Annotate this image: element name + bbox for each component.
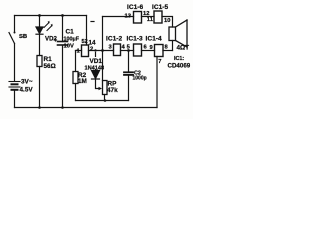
svg-text:IC1-5: IC1-5 [152,4,168,11]
svg-text:4ΩT: 4ΩT [177,45,190,52]
wire IC1-3 out to IC1-4 in [142,50,155,52]
svg-text:8: 8 [165,45,169,51]
node RP bottom [104,99,107,102]
wire C2 bottom to net Y [128,75,130,101]
svg-text:11: 11 [147,17,154,23]
svg-text:C1: C1 [66,29,75,36]
wire GND pin 7 drop [156,57,158,108]
svg-text:4.5V: 4.5V [20,87,34,94]
LED arrows [44,21,53,31]
svg-text:3V~: 3V~ [21,79,33,86]
diode VD1 [92,71,100,80]
node C1 top [61,14,64,17]
node LED top [38,14,41,17]
node C2 tap [127,49,130,52]
wire IC1-2 out to IC1-3 in [121,50,134,52]
RP wiper arrowhead [99,87,103,91]
op-amp IC1-6 [134,12,142,24]
wire IC1-1 out to IC1-2 in [89,50,114,52]
svg-text:5: 5 [127,45,131,51]
wire bottom ground rail [15,107,158,109]
wire LED branch top [39,16,41,28]
svg-text:14: 14 [89,40,97,47]
svg-text:IC1:: IC1: [174,56,184,62]
labels [19,4,191,94]
op-amp IC1-3 [134,44,142,56]
svg-text:+: + [54,37,58,44]
switch SB [9,33,15,44]
op-amp IC1-2 [114,44,121,56]
wire speaker bottom to pin 8 [172,41,174,51]
wire RP bottom to net Y [104,95,106,101]
svg-text:1000p: 1000p [133,75,147,81]
svg-text:1N4148: 1N4148 [85,66,105,72]
wire left vertical lower [14,44,16,82]
white masks under labels [85,57,102,70]
svg-text:7: 7 [158,59,161,65]
svg-text:IC1-4: IC1-4 [146,36,162,43]
wire VDD pin 14 drop [86,16,88,46]
svg-text:SB: SB [19,34,27,40]
wire node X vertical [102,17,104,81]
wire IC1-4 out pin 8 [163,50,173,52]
svg-text:3: 3 [109,45,113,51]
speaker BL [169,20,187,47]
wire top row feed [103,16,134,18]
wire top rail [15,15,87,17]
svg-text:6: 6 [144,44,148,50]
resistor R1 [37,56,42,67]
wire IC1-5 out pin 10 [162,17,173,28]
wire net Y horizontal [76,100,129,102]
svg-text:13: 13 [125,14,132,20]
wire R2 drop from pin 1 [75,51,77,72]
resistor R2 [73,72,78,84]
svg-text:47k: 47k [107,87,118,94]
op-amp IC1-4 [155,45,164,57]
svg-text:IC1-6: IC1-6 [127,4,143,11]
wire R2 bottom to net Y [75,84,77,101]
svg-text:IC1-2: IC1-2 [106,36,122,43]
node R1 bottom [38,106,41,109]
switch contact [14,32,16,34]
capacitor C2 [124,71,133,73]
node C1 bottom [61,106,64,109]
svg-text:CD4069: CD4069 [168,63,191,70]
op-amp IC1-1 [82,45,89,57]
svg-text:1M: 1M [78,78,87,85]
svg-text:2: 2 [90,47,93,53]
potentiometer RP [103,81,108,95]
svg-text:10V: 10V [64,43,74,49]
wire VD1 top [95,53,97,71]
svg-text:1: 1 [77,49,81,55]
label C1 minus dash [91,21,94,23]
op-amp IC1-5 [154,11,162,23]
wire LED to R1 [39,34,41,55]
capacitor C2 stem top [128,51,130,73]
wire C1 to bottom rail [62,46,64,108]
wire R1 to bottom rail [39,67,41,108]
node dots [14,14,130,109]
wire left vertical upper [14,16,16,33]
wire input to IC1-1 [76,50,82,52]
svg-text:10: 10 [164,18,170,24]
node VD1 tap [94,49,96,51]
svg-text:IC1-3: IC1-3 [127,36,143,43]
wire VD1 to RP wiper [96,79,100,89]
LED VD2 [36,27,43,34]
node X junction [101,49,104,52]
wire battery to bottom rail [14,91,16,108]
wire IC1-6 out to IC1-5 in [142,16,155,18]
wire C1 branch top [62,16,64,42]
svg-text:VD1: VD1 [90,58,103,65]
svg-text:100μF: 100μF [64,37,80,43]
svg-text:R1: R1 [44,56,53,63]
svg-text:4: 4 [122,45,126,51]
battery B 3V~4.5V [9,82,20,90]
svg-text:52: 52 [82,39,88,45]
capacitor C1 [58,41,68,43]
svg-text:56Ω: 56Ω [44,63,56,70]
